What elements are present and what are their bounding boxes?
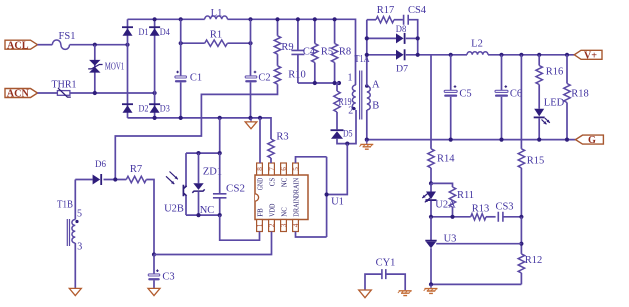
resistor R17 <box>367 5 403 23</box>
svg-text:R18: R18 <box>571 88 589 99</box>
resistor R10 <box>115 54 305 179</box>
svg-text:C1: C1 <box>190 73 202 84</box>
node ACL-MOV1 junction <box>93 43 97 47</box>
node primary phase dot <box>352 107 355 110</box>
svg-text:U2B: U2B <box>164 204 184 215</box>
LED indicator <box>534 97 565 139</box>
resistor R18 <box>564 55 589 140</box>
resistor R8 <box>331 19 351 83</box>
svg-text:R16: R16 <box>546 67 564 78</box>
pin 8 (GND) stub <box>256 163 264 190</box>
shunt regulator U3 <box>425 217 456 285</box>
capacitor CS2 <box>213 153 245 215</box>
diode D5 <box>331 110 357 144</box>
svg-text:VDD: VDD <box>268 204 276 217</box>
LED arrows <box>542 118 550 124</box>
svg-text:ACL: ACL <box>7 40 29 51</box>
node VDD junction <box>152 252 156 256</box>
diode D6 <box>93 159 106 185</box>
svg-text:R11: R11 <box>457 190 474 201</box>
node opto block top junctions <box>196 151 200 155</box>
svg-text:5: 5 <box>292 167 300 171</box>
capacitor C5 <box>444 55 471 140</box>
fuse FS1 <box>52 31 75 49</box>
capacitor C4 <box>291 19 315 83</box>
diode D4 <box>149 26 170 38</box>
svg-text:2: 2 <box>268 223 276 227</box>
svg-text:GND: GND <box>256 178 264 190</box>
wire FB feedback <box>220 215 260 240</box>
ground C3 (triangle) <box>148 288 160 295</box>
svg-text:5: 5 <box>77 209 82 220</box>
inductor L1 <box>205 8 228 19</box>
wire THR1 to bridge <box>70 92 155 94</box>
wire bridge left leg <box>127 19 129 118</box>
wire clamp left vertical <box>366 20 368 86</box>
svg-text:3: 3 <box>280 223 288 227</box>
svg-text:CS: CS <box>268 178 276 187</box>
resistor R13 <box>471 204 496 221</box>
svg-text:U1: U1 <box>331 197 344 208</box>
node T1B phase dot <box>75 220 78 223</box>
diode D8 <box>367 24 418 44</box>
node U3 ref junction <box>519 242 523 246</box>
svg-text:MOV1: MOV1 <box>105 61 125 72</box>
svg-text:7: 7 <box>268 167 276 171</box>
node opto block bottom junctions <box>196 213 200 217</box>
transformer T1A secondary winding <box>367 80 380 112</box>
port V+ <box>574 50 602 61</box>
resistor R11 <box>431 183 474 216</box>
ground U3 earth <box>424 284 438 293</box>
inductor L2 <box>467 39 488 55</box>
resistor R19 <box>334 83 352 129</box>
port G <box>576 135 604 146</box>
svg-text:4: 4 <box>292 223 300 227</box>
svg-text:A: A <box>372 80 380 91</box>
wire R14 branch <box>430 55 432 149</box>
svg-text:T1B: T1B <box>57 200 73 211</box>
svg-text:LED: LED <box>544 97 565 108</box>
capacitor C2 <box>245 19 270 118</box>
svg-text:R1: R1 <box>210 30 222 41</box>
node U2A bottom junctions <box>429 215 433 219</box>
resistor R5 <box>312 19 334 83</box>
svg-text:NC: NC <box>280 207 288 217</box>
wire secondary ground rail <box>366 110 368 140</box>
transformer T1B winding <box>57 180 82 289</box>
svg-text:D5: D5 <box>343 129 353 140</box>
wire CS2 branch from ground rail <box>219 118 221 153</box>
ground CY1 secondary earth <box>399 291 412 296</box>
svg-text:R9: R9 <box>281 42 293 53</box>
wire U3 ref line <box>436 243 521 245</box>
wire bridge right leg <box>154 19 156 118</box>
wire R15 to R12 <box>520 217 522 254</box>
wire V+ rail <box>406 54 467 56</box>
capacitor CS3 <box>495 202 521 222</box>
node R9 top <box>275 17 279 21</box>
resistor R3 <box>268 132 289 163</box>
pin 6 (NC) stub <box>280 163 288 187</box>
transformer T1A core <box>360 71 362 120</box>
pin 2 (VDD) stub <box>268 204 276 232</box>
node ACN-MOV1 junction <box>93 91 97 95</box>
svg-text:FB: FB <box>256 208 264 217</box>
node ground rail junctions <box>153 116 157 120</box>
node ACL-bridge junction <box>125 43 129 47</box>
svg-text:1: 1 <box>348 73 353 84</box>
svg-text:D2: D2 <box>139 104 149 115</box>
svg-text:3: 3 <box>77 242 82 253</box>
opto LED U2A <box>422 183 456 216</box>
wire primary ground rail <box>128 118 272 139</box>
svg-text:C3: C3 <box>162 271 174 282</box>
svg-text:D8: D8 <box>396 24 407 35</box>
thermistor THR1 <box>52 80 77 98</box>
svg-text:R14: R14 <box>437 154 455 165</box>
pin 5 (DRAIN) stub <box>292 163 300 198</box>
svg-text:6: 6 <box>280 167 288 171</box>
svg-text:L1: L1 <box>211 8 223 19</box>
svg-text:R7: R7 <box>130 164 142 175</box>
node D7 anode junction <box>365 53 369 57</box>
svg-text:THR1: THR1 <box>52 80 77 91</box>
svg-text:L2: L2 <box>471 39 483 50</box>
node R1 taps <box>179 41 183 45</box>
wire opto block top <box>186 152 220 154</box>
diode D3 <box>149 103 170 114</box>
svg-text:ACN: ACN <box>7 89 30 100</box>
pin 4 (DRAIN) stub <box>292 197 300 232</box>
wire opto block bottom <box>186 214 220 216</box>
svg-text:FS1: FS1 <box>59 31 76 42</box>
resistor R16 <box>536 55 563 109</box>
wire R15 branch <box>520 55 522 149</box>
node N1 junctions <box>313 81 317 85</box>
node snubber top junctions <box>296 17 300 21</box>
diode D7 output rectifier <box>367 49 408 74</box>
svg-text:D6: D6 <box>95 159 106 170</box>
capacitor CS4 <box>404 5 427 55</box>
wire D6 to R7 <box>104 179 127 181</box>
svg-text:D7: D7 <box>396 64 408 75</box>
pin 7 (CS) stub <box>268 163 276 186</box>
resistor R12 <box>518 254 542 285</box>
node top rail junctions <box>153 17 157 21</box>
port ACL <box>5 40 38 51</box>
svg-text:8: 8 <box>256 167 264 171</box>
wire ACL to FS1 <box>38 44 53 46</box>
svg-text:C5: C5 <box>459 89 471 100</box>
wire MOV1 branch <box>94 45 96 93</box>
node D8 junctions <box>365 36 369 40</box>
resistor R9 <box>274 19 293 54</box>
wire T1B to D6 <box>75 179 92 181</box>
wire opto LED bottom <box>431 216 471 218</box>
resistor R15 <box>518 149 544 217</box>
svg-text:CS4: CS4 <box>408 5 427 16</box>
wire DRAIN pin5 <box>296 157 327 163</box>
wire ACN to THR1 <box>38 92 58 94</box>
wire top DC rail <box>128 18 205 20</box>
ground primary (triangle) <box>245 118 257 129</box>
svg-text:CY1: CY1 <box>376 258 396 269</box>
node secondary phase dot A <box>365 84 369 88</box>
svg-text:G: G <box>588 135 596 146</box>
node bottom rail junction <box>429 282 433 286</box>
wire VDD line <box>154 232 272 255</box>
port ACN <box>5 89 38 100</box>
svg-text:CS2: CS2 <box>226 183 245 195</box>
svg-text:CS3: CS3 <box>495 202 513 213</box>
capacitor CY1 <box>365 258 405 291</box>
node opto LED top junction <box>429 181 433 185</box>
capacitor C3 <box>148 255 174 289</box>
svg-text:V+: V+ <box>584 50 597 61</box>
diode D1 <box>122 26 149 38</box>
wire drain bus <box>326 157 328 237</box>
svg-text:R10: R10 <box>288 70 306 81</box>
svg-text:D3: D3 <box>160 104 170 115</box>
svg-text:B: B <box>372 101 379 112</box>
svg-text:NC: NC <box>280 177 288 187</box>
svg-text:R3: R3 <box>276 132 288 143</box>
svg-text:2: 2 <box>348 106 353 117</box>
transformer T1B core <box>67 219 69 246</box>
svg-text:R13: R13 <box>472 204 490 215</box>
svg-text:R15: R15 <box>527 156 545 167</box>
svg-text:DRAIN: DRAIN <box>292 178 300 198</box>
resistor R14 <box>428 149 455 184</box>
svg-text:D4: D4 <box>160 27 170 38</box>
transformer T1A primary winding <box>348 54 371 117</box>
resistor R1 <box>181 30 251 47</box>
node drain junction <box>345 142 349 146</box>
resistor R7 <box>126 164 154 255</box>
ground secondary earth <box>360 140 374 150</box>
wire DRAIN pin4 <box>296 232 327 238</box>
node G rail junctions <box>365 138 369 142</box>
wire bottom feedback rail <box>431 283 521 285</box>
varistor MOV1 <box>88 60 124 73</box>
node V+ rail junctions <box>416 53 420 57</box>
wire FS1 to bridge <box>70 44 128 46</box>
svg-text:C2: C2 <box>258 73 270 84</box>
svg-text:C6: C6 <box>510 89 522 100</box>
capacitor C6 <box>495 55 522 140</box>
pin 1 (FB) stub <box>256 208 264 232</box>
svg-text:R8: R8 <box>339 47 351 58</box>
svg-text:R17: R17 <box>377 5 395 16</box>
svg-text:D1: D1 <box>139 27 149 38</box>
opto-transistor U2B <box>164 153 187 215</box>
zener ZD1 <box>192 153 222 216</box>
node R13-R15 junction <box>519 215 523 219</box>
wire GND pin8 to ground rail <box>259 118 261 163</box>
node D6 cathode junction <box>113 177 117 181</box>
node drain bus junction <box>325 192 329 196</box>
svg-text:1: 1 <box>256 223 264 227</box>
node ACN-bridge junction <box>153 91 157 95</box>
op-amp U1 body <box>255 175 344 220</box>
capacitor C1 <box>175 19 202 118</box>
ground CY1 primary (triangle) <box>359 290 372 298</box>
svg-text:R12: R12 <box>525 255 543 266</box>
wire clamp node N1 <box>298 82 339 84</box>
ground T1B (triangle) <box>69 288 81 295</box>
svg-text:DRAIN: DRAIN <box>292 197 300 217</box>
pin 3 (NC) stub <box>280 207 288 232</box>
diode D2 <box>122 103 149 114</box>
